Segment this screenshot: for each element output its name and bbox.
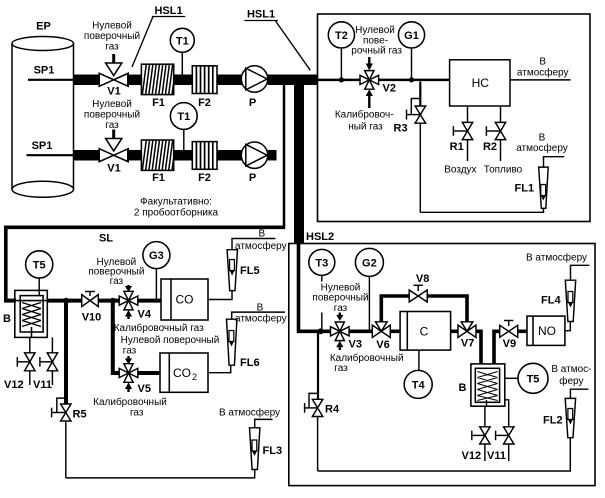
thermometer T5 (left) <box>26 251 53 296</box>
svg-text:V12: V12 <box>4 379 24 391</box>
pipe row2 F1 to F2 <box>174 150 193 161</box>
svg-text:газ: газ <box>110 276 124 287</box>
svg-text:G2: G2 <box>362 257 377 269</box>
svg-text:Калибровочный: Калибровочный <box>330 352 404 364</box>
pipe V4 to CO <box>138 299 161 303</box>
pipe row1 pump to analyser cabinet <box>268 75 318 86</box>
svg-text:Калибровочный газ: Калибровочный газ <box>114 322 204 334</box>
pipe row2 cylinder to V1 <box>74 150 101 161</box>
text zero gas at V2 <box>351 25 402 57</box>
thermometer T2 <box>328 22 354 80</box>
text to atmosphere (FL2) <box>551 364 591 387</box>
svg-text:CO: CO <box>176 293 194 307</box>
svg-text:V11: V11 <box>487 450 506 462</box>
node HSL1 (second) <box>244 9 310 71</box>
pipe SL main line B to V10 <box>47 299 82 303</box>
regulator R5 <box>52 398 71 478</box>
svg-text:V5: V5 <box>138 383 151 395</box>
svg-text:В: В <box>257 302 264 313</box>
flowmeter FL5 <box>227 250 237 291</box>
svg-text:V7: V7 <box>461 338 474 350</box>
pipe row1 cylinder to V1 <box>74 75 101 86</box>
pipe V7 to cooler B <box>476 331 481 370</box>
svg-text:V6: V6 <box>376 339 389 351</box>
flowmeter FL4 <box>565 280 575 321</box>
flowmeter FL3 <box>250 428 260 470</box>
svg-text:газ: газ <box>123 346 137 357</box>
wire HC vent to atmosphere <box>510 79 571 81</box>
svg-text:газ: газ <box>334 303 348 314</box>
svg-text:Топливо: Топливо <box>484 165 523 176</box>
wire R3 drain to FL1 bottom <box>420 208 543 212</box>
svg-text:рочный газ: рочный газ <box>351 46 402 57</box>
svg-text:V9: V9 <box>503 338 516 350</box>
flowmeter FL6 <box>227 319 237 365</box>
wire FL3 vent <box>255 419 273 427</box>
valve V6 (3-way) <box>372 322 390 338</box>
svg-text:P: P <box>249 172 256 184</box>
arrow zero gas into V5 <box>125 356 132 364</box>
svg-text:F1: F1 <box>152 172 165 184</box>
text zero gas at V5 <box>121 335 220 356</box>
node junction G1/pipe <box>409 77 414 82</box>
svg-text:FL6: FL6 <box>240 357 260 369</box>
svg-text:B: B <box>459 382 467 394</box>
text to atmosphere (FL6) <box>235 302 287 324</box>
svg-text:Нулевой: Нулевой <box>92 99 132 110</box>
svg-text:R2: R2 <box>483 141 497 153</box>
text to atmosphere (FL1) <box>516 133 568 155</box>
pipe V5 to CO2 <box>138 371 160 375</box>
gauge G2 <box>355 248 383 331</box>
svg-text:В: В <box>258 229 265 240</box>
wire vertical sample take-off to SL <box>283 83 286 229</box>
svg-text:газ: газ <box>105 42 119 53</box>
wire probe line row1 <box>28 79 74 81</box>
pipe C to V7 <box>451 329 458 333</box>
valve V1 (row1) <box>99 73 128 86</box>
svg-text:V1: V1 <box>107 86 120 98</box>
svg-text:T5: T5 <box>33 259 46 271</box>
valve V3 (4-way) <box>331 322 350 341</box>
pipe V9 to NO <box>518 329 527 333</box>
text zero gas at V4 <box>88 257 144 287</box>
svg-text:Калибровочный: Калибровочный <box>93 396 167 408</box>
arrow calibration gas into V2 bottom <box>366 89 373 108</box>
valve V7 (3-way) <box>458 322 476 338</box>
svg-text:SP1: SP1 <box>32 140 53 152</box>
svg-text:Калибровоч-: Калибровоч- <box>335 108 394 120</box>
svg-text:T1: T1 <box>176 35 189 47</box>
svg-text:B: B <box>3 313 11 325</box>
text zero calibration gas row2 <box>84 99 140 131</box>
text zero calibration gas row1 <box>84 21 140 53</box>
svg-text:R1: R1 <box>450 141 464 153</box>
svg-text:G1: G1 <box>404 30 419 42</box>
wire FL2 vent <box>570 389 588 398</box>
svg-text:газ: газ <box>130 407 144 418</box>
thermometer T1 (row1) <box>170 28 194 75</box>
wire drain R4 to FL2 <box>318 438 571 471</box>
zero gas arrow into V1 row2 <box>106 130 122 151</box>
svg-text:Факультативно:: Факультативно: <box>140 197 212 208</box>
svg-text:EP: EP <box>36 21 51 33</box>
svg-text:F1: F1 <box>152 97 165 109</box>
filter F2 (row1) <box>192 66 217 94</box>
pipe vertical heated line to HSL2 <box>294 75 304 244</box>
svg-text:HC: HC <box>472 76 490 90</box>
svg-text:атмосферу: атмосферу <box>516 142 568 154</box>
svg-text:T2: T2 <box>335 30 348 42</box>
svg-text:V8: V8 <box>416 273 429 285</box>
pipe V6 to C <box>390 329 400 333</box>
analyser HC box <box>450 60 510 106</box>
pipe cooler B to V9 <box>494 331 500 370</box>
pipe row1 F1 to F2 <box>174 75 193 86</box>
node junction R5 branch <box>63 298 69 304</box>
regulator R1 <box>453 106 472 161</box>
svg-text:V3: V3 <box>349 339 362 351</box>
svg-text:2 пробоотборника: 2 пробоотборника <box>134 207 219 219</box>
svg-text:T5: T5 <box>527 373 540 385</box>
wire CO2 to FL6 <box>208 365 231 373</box>
svg-text:В атмосферу: В атмосферу <box>526 251 587 263</box>
svg-text:В: В <box>539 57 546 68</box>
arrow calibration gas into V3 bottom <box>336 341 343 350</box>
text to atmosphere (HC) <box>517 57 569 79</box>
svg-text:HSL1: HSL1 <box>247 9 275 21</box>
svg-text:FL1: FL1 <box>515 183 535 195</box>
pipe SL main line <box>4 299 16 303</box>
valve V9 <box>500 321 518 338</box>
svg-text:HSL2: HSL2 <box>306 231 334 243</box>
pipe row1 V1 to F1 <box>127 75 141 86</box>
valve V5 (4-way) <box>119 364 138 383</box>
svg-text:FL2: FL2 <box>543 415 563 427</box>
svg-text:атмосферу: атмосферу <box>235 240 287 252</box>
text calibration gas at V5 <box>93 396 167 418</box>
svg-text:NO: NO <box>538 324 556 338</box>
svg-text:CO: CO <box>173 366 191 380</box>
thermometer T5 (right) <box>505 363 548 393</box>
svg-text:F2: F2 <box>198 97 211 109</box>
svg-text:поверочный: поверочный <box>84 110 140 121</box>
pipe row1 F2 to pump <box>217 75 243 86</box>
cooler B (right) <box>471 364 505 406</box>
svg-text:V10: V10 <box>82 312 102 324</box>
node junction CO2 branch <box>110 298 116 304</box>
svg-text:P: P <box>249 97 256 109</box>
wire FL5 vent <box>232 239 275 250</box>
svg-text:T3: T3 <box>315 257 328 269</box>
sample probe vessel EP (cylinder) <box>12 37 74 198</box>
pipe branch to V5 <box>113 301 119 373</box>
svg-text:газ: газ <box>105 120 119 131</box>
valve V4 (4-way) <box>119 291 138 310</box>
svg-text:В атмос-: В атмос- <box>551 364 591 375</box>
pipe row2 F2 to pump <box>217 150 243 161</box>
regulator R3 <box>407 82 426 213</box>
arrow zero gas into V2 top <box>366 57 373 71</box>
text zero gas at V3 <box>312 282 368 315</box>
wire FL6 vent <box>232 312 285 319</box>
pipe V2 to HC <box>379 79 450 82</box>
svg-text:газ: газ <box>334 363 348 374</box>
node junction T3/R4 branch <box>318 328 324 334</box>
node junction T2/pipe <box>339 77 344 82</box>
svg-text:V2: V2 <box>383 83 396 95</box>
thermometer T3 <box>309 249 335 331</box>
svg-text:В: В <box>539 133 546 144</box>
regulator R4 <box>305 331 323 471</box>
wire probe line row2 <box>27 154 74 156</box>
svg-text:FL3: FL3 <box>263 445 283 457</box>
text to atmosphere (FL5) <box>235 229 287 253</box>
valve V11 (left) <box>40 337 58 385</box>
svg-text:поверочный: поверочный <box>84 31 140 42</box>
svg-text:FL5: FL5 <box>240 265 260 277</box>
svg-text:SL: SL <box>99 233 113 245</box>
analyser CO2 box <box>160 353 208 392</box>
arrow calibration gas into V5 bottom <box>125 382 132 392</box>
node HSL1 (first) <box>132 5 185 67</box>
svg-text:V1: V1 <box>107 163 120 175</box>
wire NO to FL4 <box>565 322 570 331</box>
svg-text:феру: феру <box>559 375 583 387</box>
wire CO to FL5 <box>208 291 232 300</box>
top-right analyser cabinet box <box>318 14 591 222</box>
valve V12 (right) <box>472 406 490 461</box>
pipe branch down to R5 <box>64 301 68 404</box>
svg-text:F2: F2 <box>198 172 211 184</box>
svg-text:В атмосферу: В атмосферу <box>219 407 280 419</box>
svg-text:атмосферу: атмосферу <box>235 313 287 325</box>
svg-text:ный газ: ный газ <box>348 121 383 132</box>
thermometer T1 (row2) <box>170 103 197 150</box>
svg-text:Воздух: Воздух <box>444 165 476 176</box>
valve V1 (row2) <box>99 149 128 162</box>
pipe bypass V6 to V8 to V7 <box>381 296 467 323</box>
HSL2 cabinet box <box>289 244 595 486</box>
svg-text:HSL1: HSL1 <box>154 5 182 17</box>
valve V8 <box>409 285 427 302</box>
cooler B (left) <box>15 290 48 337</box>
valve V12 (left) <box>17 337 35 385</box>
svg-text:T4: T4 <box>412 379 426 391</box>
pipe into cabinet to V2 <box>318 79 361 82</box>
svg-text:2: 2 <box>192 372 197 382</box>
filter F1 (row2) <box>141 140 173 170</box>
valve V10 <box>82 292 99 307</box>
text optional: 2 sample probes <box>134 197 219 219</box>
pipe SL horizontal <box>6 227 285 300</box>
arrow calibration gas into V4 bottom <box>125 310 132 319</box>
svg-text:FL4: FL4 <box>541 295 561 307</box>
valve V11 (right) <box>496 400 514 461</box>
wire drain R5 to FL3 <box>66 470 255 478</box>
svg-text:T1: T1 <box>177 111 190 123</box>
arrow zero gas into V4 <box>125 285 132 292</box>
analyser CO box <box>161 279 208 320</box>
svg-text:атмосферу: атмосферу <box>517 66 569 78</box>
pipe V10 to V4 <box>98 299 119 303</box>
gauge G1 <box>398 22 424 80</box>
analyser C box <box>400 312 451 351</box>
flowmeter FL1 <box>539 167 549 208</box>
svg-text:V12: V12 <box>462 450 482 462</box>
valve V2 (4-way) <box>360 71 379 90</box>
pipe heated line down to HSL2 main <box>299 243 331 331</box>
svg-text:V11: V11 <box>33 379 52 391</box>
svg-text:R3: R3 <box>394 123 408 135</box>
pump P (row1) <box>241 66 267 92</box>
regulator R2 <box>486 106 505 161</box>
filter F1 (row1) <box>141 64 173 94</box>
svg-text:SP1: SP1 <box>34 65 55 77</box>
pump P (row2) <box>241 142 267 168</box>
wire FL4 vent <box>571 265 590 280</box>
text calibration gas at V2 <box>335 108 394 132</box>
svg-text:R4: R4 <box>325 404 340 416</box>
wire through cooler B <box>16 300 47 302</box>
thermometer T4 <box>404 350 432 398</box>
gauge G3 <box>143 242 170 299</box>
zero gas arrow into V1 row1 <box>106 54 122 76</box>
svg-text:V4: V4 <box>138 309 152 321</box>
flowmeter FL2 <box>565 398 575 437</box>
svg-text:C: C <box>420 325 429 339</box>
pipe stub row2 after pump <box>268 150 277 161</box>
text calibration gas at V3 <box>330 352 404 374</box>
pipe row2 V1 to F1 <box>127 150 141 161</box>
analyser NO box <box>527 316 565 345</box>
pipe V3 to V6 <box>349 329 372 333</box>
svg-text:R5: R5 <box>73 409 87 421</box>
arrow zero gas into V3 <box>336 313 343 321</box>
wire FL1 vent <box>544 157 565 167</box>
svg-text:G3: G3 <box>149 250 164 262</box>
filter F2 (row2) <box>192 142 217 170</box>
svg-text:Нулевой: Нулевой <box>92 21 132 32</box>
